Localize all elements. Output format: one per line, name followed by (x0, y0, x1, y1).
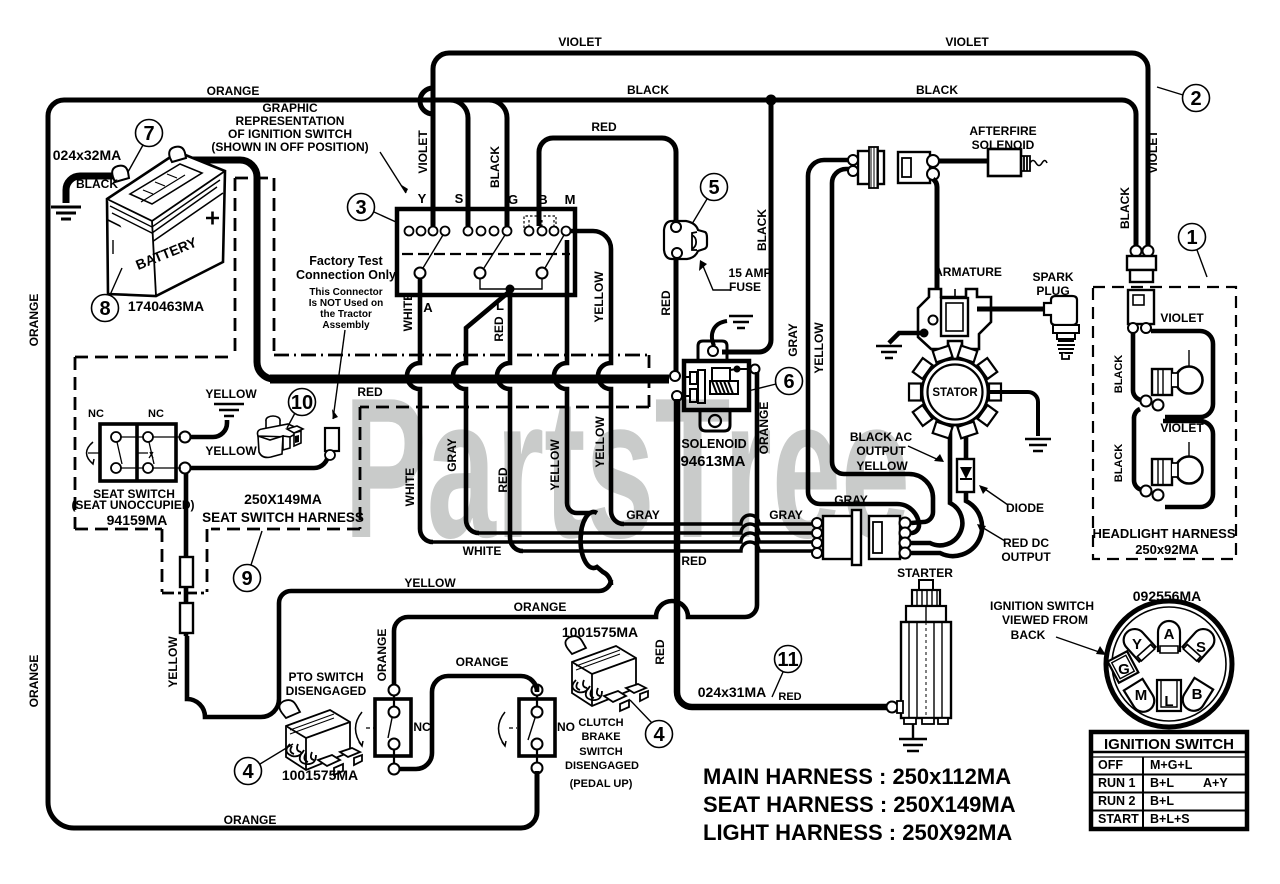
svg-text:1740463MA: 1740463MA (128, 298, 204, 314)
svg-text:GRAY: GRAY (769, 508, 803, 522)
svg-text:WHITE: WHITE (403, 468, 417, 507)
thin link lower pins (480, 279, 542, 289)
dashed seat harness boundary right (211, 355, 649, 529)
callout 1 (1179, 224, 1208, 278)
svg-text:START: START (1098, 812, 1139, 826)
svg-text:BLACK: BLACK (627, 83, 669, 97)
callout 8 (92, 268, 123, 322)
ground starter (899, 739, 927, 751)
svg-text:S: S (455, 191, 464, 206)
wire white A-pin down (407, 279, 433, 542)
terminal G (1108, 651, 1139, 683)
svg-text:OFF: OFF (1098, 758, 1123, 772)
wire yellow S-crossing bundle (581, 512, 611, 585)
callout 5 (692, 174, 728, 225)
terminal B (1179, 678, 1214, 715)
afterfire solenoid body (988, 149, 1047, 176)
svg-text:PLUG: PLUG (1036, 284, 1069, 298)
svg-text:HEADLIGHT HARNESS: HEADLIGHT HARNESS (1092, 526, 1235, 541)
wire orange clutch to bottom (535, 773, 540, 812)
svg-text:the Tractor: the Tractor (320, 309, 372, 320)
wire bundle white w3 (433, 533, 814, 542)
svg-text:OUTPUT: OUTPUT (856, 444, 906, 458)
svg-text:RED: RED (653, 639, 667, 665)
svg-text:YELLOW: YELLOW (205, 387, 257, 401)
svg-text:A: A (1164, 626, 1175, 643)
svg-text:AFTERFIRE: AFTERFIRE (969, 124, 1036, 138)
wire black down to headlight connector (1122, 100, 1136, 246)
wire black ac stator output (911, 428, 962, 545)
svg-text:M: M (1135, 687, 1148, 704)
wire yellow top connector down to cluster (832, 169, 933, 523)
ground armature (876, 346, 902, 358)
callout 9 (234, 531, 263, 592)
connector 2-pin male (engine) (848, 147, 884, 188)
battery negative post (112, 166, 129, 182)
svg-text:1001575MA: 1001575MA (282, 767, 358, 783)
wire stator right to ground (988, 392, 1038, 436)
callout 7 (128, 120, 163, 173)
svg-text:1001575MA: 1001575MA (562, 624, 638, 640)
wire yellow seat to ground (190, 420, 227, 437)
svg-text:VIOLET: VIOLET (945, 35, 989, 49)
leader note to connector (333, 330, 345, 419)
leader black ac output (908, 446, 941, 461)
svg-text:SEAT SWITCH HARNESS: SEAT SWITCH HARNESS (202, 510, 364, 525)
svg-text:BLACK: BLACK (755, 209, 769, 251)
svg-text:(SHOWN IN OFF POSITION): (SHOWN IN OFF POSITION) (211, 140, 368, 154)
wire bundle gray w1 (624, 515, 814, 524)
ground battery (51, 207, 81, 219)
svg-text:M+G+L: M+G+L (1150, 758, 1193, 772)
svg-text:NO: NO (557, 720, 575, 734)
headlight connector top (1127, 246, 1156, 334)
svg-text:GRAY: GRAY (834, 493, 868, 507)
callout 4 (235, 744, 294, 785)
wire bundle red w4 (523, 542, 814, 551)
svg-text:SPARK: SPARK (1032, 270, 1073, 284)
seat switch box (87, 424, 191, 481)
callout 6 (748, 368, 803, 395)
svg-text:VIOLET: VIOLET (558, 35, 602, 49)
svg-text:RED: RED (778, 691, 801, 703)
wire violet S branch (450, 100, 468, 226)
svg-text:YELLOW: YELLOW (205, 444, 257, 458)
svg-text:DIODE: DIODE (1006, 501, 1044, 515)
svg-text:15 AMP: 15 AMP (729, 266, 772, 280)
wire starter ground (912, 724, 914, 738)
svg-text:A+Y: A+Y (1203, 776, 1228, 790)
svg-text:BLACK AC: BLACK AC (850, 430, 913, 444)
svg-text:YELLOW: YELLOW (856, 459, 908, 473)
harness list (703, 764, 1016, 845)
svg-text:ORANGE: ORANGE (514, 600, 567, 614)
svg-text:3: 3 (355, 197, 366, 219)
svg-text:(PEDAL UP): (PEDAL UP) (570, 778, 633, 790)
wire battery negative cable (66, 176, 127, 203)
leader graphic representation to box (380, 152, 406, 193)
callout 10 (287, 389, 316, 429)
svg-text:2: 2 (1190, 88, 1201, 110)
svg-text:RED DC: RED DC (1003, 536, 1049, 550)
svg-text:ORANGE: ORANGE (456, 655, 509, 669)
svg-text:ORANGE: ORANGE (207, 84, 260, 98)
svg-text:REPRESENTATION: REPRESENTATION (236, 114, 345, 128)
connector 4-pin female (869, 516, 911, 559)
wire armature ground (889, 333, 923, 343)
diode (957, 459, 974, 492)
svg-text:RED: RED (492, 316, 506, 342)
svg-text:250x92MA: 250x92MA (1135, 542, 1199, 557)
wire red from L node (497, 289, 523, 551)
switch blade G-L (484, 235, 505, 268)
wire red ignition B to fuse (539, 138, 676, 226)
svg-text:DISENGAGED: DISENGAGED (286, 684, 367, 698)
svg-text:5: 5 (708, 177, 719, 199)
svg-text:WHITE: WHITE (463, 544, 502, 558)
leader ignition viewed from back (1056, 637, 1102, 653)
svg-text:BLACK: BLACK (1113, 355, 1125, 394)
wire violet crossover bump over orange (420, 88, 433, 226)
svg-text:OUTPUT: OUTPUT (1001, 550, 1051, 564)
wire black to bulb1 (1133, 333, 1141, 400)
leader 15 amp fuse (703, 266, 731, 290)
svg-text:94159MA: 94159MA (107, 512, 168, 528)
svg-text:Factory Test: Factory Test (309, 254, 383, 268)
node L junction dot (506, 285, 515, 294)
wire orange PTO to clutch (399, 676, 537, 769)
terminal M (1124, 679, 1159, 716)
wire orange solenoid down (394, 372, 757, 684)
svg-text:NC: NC (148, 408, 164, 420)
svg-text:B: B (1192, 686, 1203, 703)
ground stator (1025, 439, 1051, 451)
ignition switch table (1091, 732, 1247, 829)
wire bundle w2 (479, 524, 814, 533)
svg-text:(SEAT UNOCCUPIED): (SEAT UNOCCUPIED) (71, 498, 194, 512)
terminal L (1157, 680, 1181, 711)
svg-text:YELLOW: YELLOW (812, 322, 826, 374)
svg-text:ORANGE: ORANGE (27, 655, 41, 708)
connector 4-pin male (812, 510, 861, 565)
inline connector 2 seat harness (180, 603, 193, 633)
wire black junction to solenoid (722, 100, 771, 352)
interlock module 10 (258, 416, 304, 457)
dashed corridor battery harness (75, 178, 649, 593)
armature (918, 289, 991, 349)
svg-text:RED: RED (681, 554, 707, 568)
ground seat yellow (214, 404, 244, 416)
wire battery positive cable (184, 160, 274, 379)
terminal Y (1119, 625, 1156, 663)
wire yellow seat horizontal (187, 580, 611, 717)
wire yellow seat to test connector (190, 454, 328, 468)
dash-dot main harness line (274, 354, 649, 357)
solenoid internals (682, 368, 748, 403)
terminal A (1158, 621, 1180, 651)
svg-text:SWITCH: SWITCH (579, 746, 622, 758)
svg-text:YELLOW: YELLOW (404, 576, 456, 590)
ground curl at solenoid (712, 316, 753, 346)
svg-text:S: S (1196, 639, 1206, 656)
svg-text:GRAY: GRAY (786, 323, 800, 357)
wire gray top connector down to cluster (808, 160, 919, 533)
svg-text:YELLOW: YELLOW (593, 416, 607, 468)
svg-text:SEAT HARNESS : 250X149MA: SEAT HARNESS : 250X149MA (703, 792, 1016, 817)
svg-text:B+L+S: B+L+S (1150, 812, 1190, 826)
svg-text:B+L: B+L (1150, 776, 1174, 790)
svg-text:YELLOW: YELLOW (548, 439, 562, 491)
stator (909, 346, 1001, 439)
svg-text:RED: RED (357, 385, 383, 399)
svg-text:BLACK: BLACK (916, 83, 958, 97)
watermark PartsTree (344, 357, 964, 580)
svg-text:VIOLET: VIOLET (1160, 421, 1204, 435)
inline connector 1 seat harness (180, 557, 193, 587)
callout 4 (630, 700, 673, 748)
svg-text:10: 10 (291, 392, 313, 414)
svg-text:YELLOW: YELLOW (166, 636, 180, 688)
svg-text:4: 4 (653, 724, 665, 746)
svg-text:L: L (496, 298, 504, 313)
svg-text:A: A (423, 300, 433, 315)
node junction dot black wire (766, 95, 777, 106)
svg-text:RED: RED (496, 467, 510, 493)
pto switch component 1001575MA (279, 700, 362, 775)
svg-text:OF IGNITION SWITCH: OF IGNITION SWITCH (228, 127, 352, 141)
svg-text:ORANGE: ORANGE (224, 813, 277, 827)
svg-text:VIOLET: VIOLET (1146, 130, 1160, 174)
connector 2-pin female (harness) (898, 152, 939, 183)
svg-text:ARMATURE: ARMATURE (934, 265, 1002, 279)
svg-text:Is NOT Used on: Is NOT Used on (309, 298, 383, 309)
svg-text:WHITE: WHITE (401, 293, 415, 332)
svg-text:L: L (1164, 693, 1173, 710)
svg-text:This Connector: This Connector (309, 287, 382, 298)
svg-text:G: G (1118, 661, 1130, 678)
svg-text:6: 6 (783, 371, 794, 393)
svg-text:RUN 1: RUN 1 (1098, 776, 1136, 790)
svg-text:11: 11 (777, 649, 798, 671)
svg-text:BLACK: BLACK (1118, 187, 1132, 229)
svg-text:IGNITION SWITCH: IGNITION SWITCH (1104, 736, 1234, 753)
svg-text:MAIN HARNESS : 250x112MA: MAIN HARNESS : 250x112MA (703, 764, 1011, 789)
factory test dotted bracket (524, 216, 556, 228)
starter (887, 580, 952, 724)
svg-text:Y: Y (1132, 636, 1142, 653)
svg-text:024x31MA: 024x31MA (698, 684, 767, 700)
clutch brake switch box (499, 685, 556, 774)
bulb 1 (1141, 350, 1203, 411)
svg-text:BRAKE: BRAKE (581, 731, 620, 743)
svg-text:7: 7 (143, 123, 154, 145)
wire armature to spark plug (977, 307, 1044, 312)
wire main band to solenoid (270, 375, 669, 384)
svg-text:ORANGE: ORANGE (757, 402, 771, 455)
fuse 15 amp (664, 221, 707, 259)
wire violet to bulb1 (1151, 331, 1213, 417)
svg-text:B+L: B+L (1150, 794, 1174, 808)
labels wire colors (27, 35, 1160, 707)
ignition switch rear view (1106, 601, 1232, 727)
svg-text:DISENGAGED: DISENGAGED (565, 760, 639, 772)
svg-text:Connection Only: Connection Only (296, 268, 396, 282)
svg-text:NC: NC (413, 720, 431, 734)
solenoid studs (670, 371, 680, 381)
headlight harness dashed box (1093, 287, 1236, 559)
leader diode (982, 487, 1008, 505)
svg-text:IGNITION SWITCH: IGNITION SWITCH (990, 599, 1094, 613)
dashed line inside connector (402, 253, 570, 255)
svg-text:FUSE: FUSE (729, 280, 761, 294)
wire red fuse to solenoid stud (674, 259, 679, 371)
actuator arc seat switch (87, 442, 95, 464)
ignition switch connector box (397, 209, 575, 295)
callout 3 (348, 194, 397, 223)
wire yellow M-pin down (570, 231, 624, 524)
callout 2 (1157, 85, 1210, 112)
svg-text:B: B (538, 192, 547, 207)
svg-text:BLACK: BLACK (488, 146, 502, 188)
svg-text:94613MA: 94613MA (680, 453, 745, 470)
pto switch box (356, 685, 412, 775)
svg-text:G: G (508, 192, 518, 207)
wire black G branch (489, 100, 507, 226)
svg-text:VIOLET: VIOLET (416, 130, 430, 174)
svg-text:ORANGE: ORANGE (375, 629, 389, 682)
svg-text:BACK: BACK (1011, 628, 1046, 642)
svg-text:NC: NC (88, 408, 104, 420)
svg-text:8: 8 (99, 298, 110, 320)
svg-text:RUN 2: RUN 2 (1098, 794, 1136, 808)
svg-text:PTO SWITCH: PTO SWITCH (288, 670, 363, 684)
svg-text:9: 9 (241, 568, 252, 590)
wire to afterfire solenoid (938, 159, 988, 164)
svg-text:1: 1 (1186, 227, 1197, 249)
svg-text:BLACK: BLACK (1113, 444, 1125, 483)
svg-text:GRAY: GRAY (626, 508, 660, 522)
svg-text:SOLENOID: SOLENOID (972, 138, 1035, 152)
wire violet to bulb2 (1163, 421, 1213, 507)
svg-text:092556MA: 092556MA (1133, 588, 1202, 604)
svg-text:BLACK: BLACK (76, 177, 118, 191)
wire yellow seat down (184, 473, 189, 636)
svg-text:ORANGE: ORANGE (27, 294, 41, 347)
battery (107, 147, 225, 296)
wire orange left border top and bottom (48, 100, 1122, 828)
leader red dc output (980, 526, 1005, 541)
svg-text:RED: RED (659, 290, 673, 316)
wire black connector down to armature (933, 179, 937, 297)
spark plug (1044, 296, 1079, 359)
svg-text:CLUTCH: CLUTCH (578, 717, 623, 729)
svg-text:SOLENOID: SOLENOID (681, 437, 746, 451)
battery positive post (169, 147, 186, 162)
bulb 2 (1141, 442, 1203, 501)
svg-text:VIEWED FROM: VIEWED FROM (1002, 613, 1088, 627)
factory test inline connector (325, 428, 339, 460)
svg-text:VIOLET: VIOLET (1160, 311, 1204, 325)
svg-text:Y: Y (418, 191, 427, 206)
switch blade M-L (545, 235, 564, 268)
wire red dc stator output through diode (911, 428, 982, 556)
svg-text:STATOR: STATOR (932, 387, 978, 399)
terminal S (1182, 625, 1219, 663)
svg-text:4: 4 (242, 761, 254, 783)
wire red starter cable (677, 399, 887, 707)
svg-text:LIGHT HARNESS : 250X92MA: LIGHT HARNESS : 250X92MA (703, 820, 1012, 845)
svg-text:024x32MA: 024x32MA (53, 147, 122, 163)
svg-text:GRAPHIC: GRAPHIC (262, 101, 318, 115)
svg-text:YELLOW: YELLOW (592, 271, 606, 323)
dashed seat switch box (75, 357, 233, 592)
svg-text:GRAY: GRAY (445, 438, 459, 472)
wire black to bulb2 (1134, 409, 1142, 490)
svg-text:Assembly: Assembly (322, 320, 370, 331)
wire gray from L node (453, 291, 510, 533)
switch blade Y-A (423, 235, 443, 268)
svg-text:RED: RED (591, 120, 617, 134)
svg-text:M: M (565, 192, 576, 207)
callout 11 (772, 646, 802, 698)
svg-text:STARTER: STARTER (897, 566, 953, 580)
wire yellow B-area down (554, 240, 590, 513)
solenoid 94613MA (670, 341, 760, 431)
svg-text:250X149MA: 250X149MA (244, 491, 322, 507)
clutch brake switch component 1001575MA (565, 636, 648, 711)
wire violet top horizontal (433, 53, 1148, 246)
